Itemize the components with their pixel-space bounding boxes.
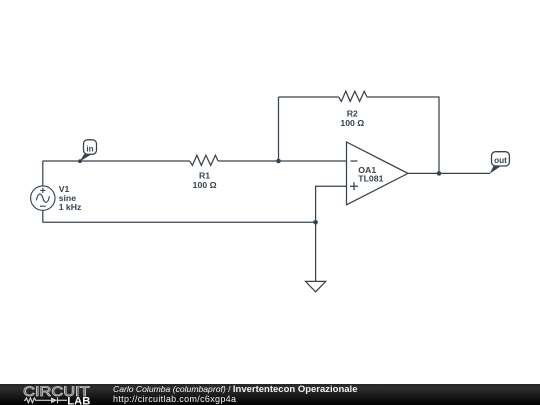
labels xyxy=(59,109,384,213)
wire: R2 right lead and vertical down to output xyxy=(367,97,439,173)
wire: output to out flag xyxy=(408,172,490,174)
wire: bottom return from V1 xyxy=(43,221,316,223)
wire: V1 top lead xyxy=(42,161,44,186)
svg-text:in: in xyxy=(86,144,93,153)
CircuitLab logo xyxy=(22,383,95,405)
in flag xyxy=(80,140,97,162)
svg-text:R2: R2 xyxy=(347,109,358,119)
flag pointer dot at in xyxy=(78,159,82,163)
wire: ground stem xyxy=(315,222,317,281)
footer bar xyxy=(0,384,540,405)
footer text xyxy=(113,385,357,404)
out flag xyxy=(490,152,510,174)
svg-text:out: out xyxy=(494,156,507,165)
wire: R2 left lead xyxy=(279,96,339,98)
svg-text:1 kHz: 1 kHz xyxy=(59,202,82,212)
svg-text:R1: R1 xyxy=(199,170,210,180)
node A junction dot (R1/R2/op-amp minus) xyxy=(276,159,281,164)
wire: top main from V1 to R1 xyxy=(43,160,190,162)
svg-text:TL081: TL081 xyxy=(358,174,383,184)
wire: R1 to op-amp minus input xyxy=(218,160,346,162)
resistor R2 zigzag xyxy=(339,91,367,101)
node junction dot (plus input / ground / bottom wire) xyxy=(313,220,318,225)
wire: V1 bottom lead xyxy=(42,210,44,222)
op-amp OA1 xyxy=(347,142,409,205)
ground xyxy=(306,281,326,291)
node junction dot (output / feedback) xyxy=(437,171,442,176)
svg-text:100 Ω: 100 Ω xyxy=(193,180,217,190)
svg-text:100 Ω: 100 Ω xyxy=(340,118,364,128)
svg-text:LAB: LAB xyxy=(67,396,90,405)
resistor R1 zigzag xyxy=(190,155,218,165)
wire: feedback vertical up from node A xyxy=(278,97,280,161)
voltage source V1 xyxy=(31,186,55,210)
wire: op-amp plus input xyxy=(316,186,347,222)
